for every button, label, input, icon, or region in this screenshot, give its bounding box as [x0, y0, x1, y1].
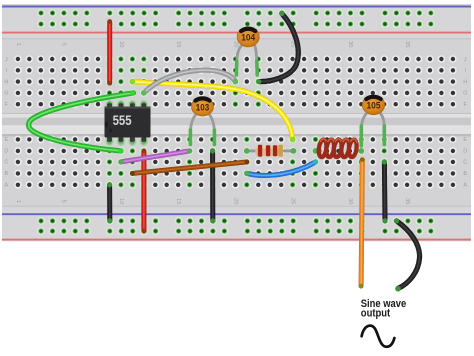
svg-text:I: I — [6, 68, 8, 74]
inductor L1 coil: D27 to D31 — [313, 139, 365, 158]
wire W6 purple: C10 to D16 — [118, 148, 192, 164]
op-amp-timer U1 555 IC — [105, 99, 151, 147]
svg-text:E: E — [463, 137, 467, 143]
svg-text:30: 30 — [347, 198, 353, 204]
svg-text:output: output — [361, 307, 391, 319]
wire W11 blue: B21 to C27 — [244, 159, 318, 176]
wire W12 orange: C31 down off-board (output probe) — [359, 157, 365, 288]
wire W10 black: D18 to bottom rail row1 — [210, 148, 215, 223]
svg-text:1: 1 — [15, 43, 21, 46]
breadboard — [2, 4, 471, 241]
svg-text:J: J — [464, 57, 467, 63]
capacitor C2 104: top rail to I20/I22 — [236, 27, 259, 75]
svg-text:H: H — [4, 79, 8, 85]
svg-text:B: B — [463, 171, 467, 177]
svg-text:35: 35 — [404, 198, 410, 204]
label: Sine wave output — [361, 298, 406, 320]
svg-text:20: 20 — [232, 198, 238, 204]
svg-text:A: A — [463, 183, 467, 189]
wire W2 green U-loop: G11 to D10 — [29, 90, 136, 154]
wire W14 black hook: bottom rail row1 off-board — [394, 218, 420, 291]
svg-text:103: 103 — [196, 101, 209, 112]
svg-text:35: 35 — [404, 41, 410, 47]
svg-text:5: 5 — [61, 43, 67, 46]
svg-text:I: I — [464, 68, 466, 74]
svg-text:15: 15 — [175, 41, 181, 47]
svg-text:C: C — [463, 160, 467, 166]
svg-text:B: B — [4, 171, 8, 177]
svg-text:10: 10 — [118, 198, 124, 204]
svg-text:555: 555 — [113, 113, 132, 128]
capacitor C1 103: E16/E18 — [190, 97, 214, 144]
wire W5 black: top rail to H22 — [256, 11, 298, 84]
svg-text:104: 104 — [241, 32, 256, 43]
wire W4 gray: G12 to H20 — [141, 70, 238, 96]
wire W1 red jumper: top power rail row2 to H9 — [107, 19, 112, 85]
wire W9 black: A9 to bottom rail row1 — [107, 182, 112, 223]
svg-text:C: C — [4, 160, 8, 166]
svg-text:G: G — [463, 91, 467, 97]
svg-text:105: 105 — [367, 100, 381, 111]
svg-text:D: D — [4, 149, 8, 155]
svg-text:J: J — [5, 57, 8, 63]
svg-text:A: A — [4, 183, 8, 189]
svg-text:30: 30 — [347, 41, 353, 47]
wire W13 black: C33 to bottom rail row1 — [382, 159, 388, 223]
svg-text:5: 5 — [61, 200, 67, 203]
svg-text:15: 15 — [175, 198, 181, 204]
wire W3 yellow: H11 to E25 — [130, 79, 296, 142]
svg-text:10: 10 — [118, 41, 124, 47]
svg-text:H: H — [463, 79, 467, 85]
wire W7 brown: B11 to C21 — [130, 160, 249, 176]
capacitor C3 105: E31/E33 — [361, 95, 384, 146]
resistor R1: D21 to D25 — [244, 145, 296, 157]
sine wave symbol — [362, 326, 395, 347]
svg-text:E: E — [4, 137, 8, 143]
wire W8 red jumper: D12 to bottom power rail — [142, 149, 147, 234]
svg-text:25: 25 — [290, 198, 296, 204]
svg-text:G: G — [4, 91, 8, 97]
svg-text:D: D — [463, 149, 467, 155]
svg-text:1: 1 — [15, 200, 21, 203]
svg-text:20: 20 — [232, 41, 238, 47]
